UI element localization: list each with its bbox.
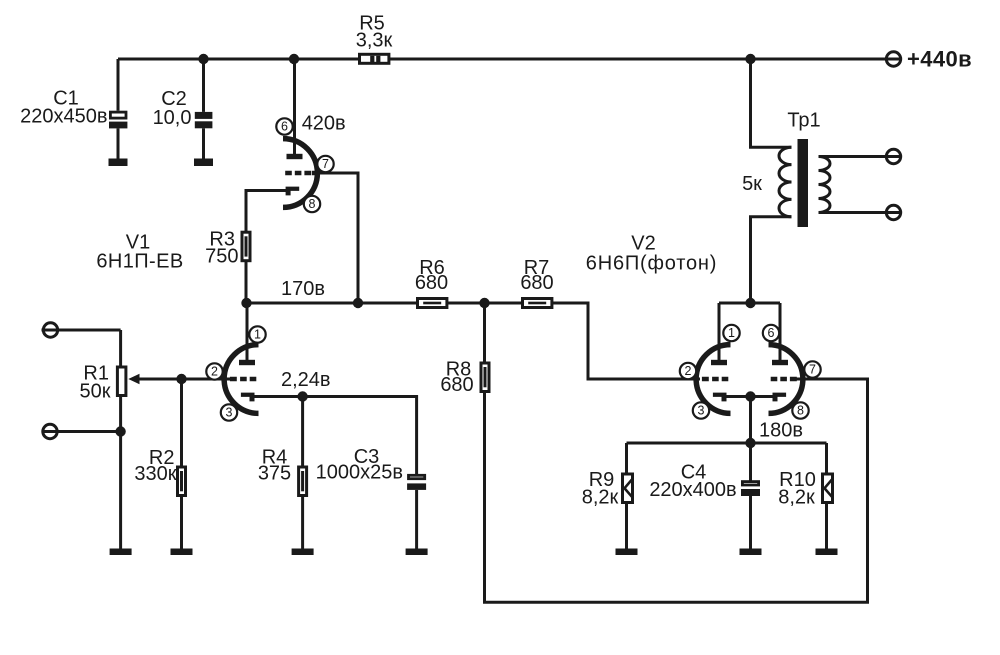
- wire feedback loop R8 to V2 grid pin7: [485, 379, 868, 602]
- svg-text:V2: V2: [631, 233, 655, 255]
- svg-text:1000х25в: 1000х25в: [316, 462, 403, 484]
- wire R10 top lead: [825, 443, 828, 474]
- svg-text:2: 2: [211, 365, 218, 379]
- svg-text:680: 680: [415, 272, 448, 294]
- wire R3 to node: [245, 261, 248, 303]
- pin 7: [317, 156, 333, 172]
- wire C2 bottom lead: [202, 128, 205, 158]
- wire R8 top lead: [483, 303, 486, 362]
- terminal input bottom: [42, 424, 121, 438]
- svg-text:3: 3: [226, 406, 233, 420]
- triode V1 upper (6Н1П-ЕВ section 2): [276, 118, 333, 212]
- svg-text:5к: 5к: [742, 173, 762, 195]
- wire R10 bottom lead: [825, 503, 828, 549]
- resistor R2: [178, 467, 186, 496]
- wire R2 bottom lead: [180, 496, 183, 549]
- node R8 tap: [479, 298, 489, 308]
- resistor R3: [242, 232, 250, 261]
- wire V1 grid line: [139, 378, 231, 381]
- wire V2 anode tee: [719, 303, 780, 361]
- wire secondary bottom lead: [819, 211, 901, 214]
- pin 8: [304, 196, 320, 212]
- svg-text:6Н1П-ЕВ: 6Н1П-ЕВ: [96, 251, 183, 273]
- pin 6: [276, 118, 292, 134]
- cathode: [713, 393, 727, 402]
- envelope arc: [769, 345, 803, 414]
- capacitor C2: [195, 112, 213, 128]
- capacitor C3: [407, 475, 426, 490]
- potentiometer R1: [117, 367, 139, 396]
- wire C1 bottom lead: [117, 128, 120, 158]
- svg-text:6: 6: [768, 326, 775, 340]
- wire R4 top lead: [301, 397, 304, 468]
- node R3 bottom: [241, 298, 251, 308]
- resistor R4: [299, 467, 307, 496]
- terminal +440в: [886, 52, 900, 66]
- wire V2 cathode down to C4: [749, 397, 752, 482]
- node V1 anode tap: [289, 54, 299, 64]
- svg-text:170в: 170в: [281, 278, 325, 300]
- pin 8: [792, 402, 808, 418]
- wire input top to R1: [119, 330, 122, 367]
- ground C3: [406, 549, 428, 556]
- node C2 tap: [198, 54, 208, 64]
- resistor R6: [418, 299, 447, 308]
- svg-text:220х400в: 220х400в: [649, 479, 736, 501]
- svg-text:750: 750: [205, 246, 238, 268]
- wire C4 bottom lead: [749, 496, 752, 549]
- anode plate: [239, 360, 255, 365]
- svg-text:Тр1: Тр1: [787, 110, 820, 132]
- node transformer tap: [745, 54, 755, 64]
- ground C4: [740, 549, 762, 556]
- wire C2 top lead: [202, 59, 205, 112]
- svg-text:10,0: 10,0: [153, 107, 192, 129]
- cathode: [773, 393, 787, 402]
- anode plate: [711, 360, 727, 365]
- svg-text:680: 680: [440, 374, 473, 396]
- node R4 tap: [297, 391, 307, 401]
- envelope arc: [283, 139, 317, 208]
- svg-text:420в: 420в: [302, 113, 346, 135]
- svg-text:50к: 50к: [80, 381, 111, 403]
- pin 1: [723, 325, 739, 341]
- anode plate: [287, 154, 303, 159]
- pin 3: [221, 404, 237, 420]
- wire V1 grid to node: [316, 173, 358, 303]
- svg-text:8,2к: 8,2к: [778, 487, 815, 509]
- wire V1 lower anode lead: [246, 303, 249, 361]
- pin 2: [680, 363, 696, 379]
- resistor R10: [823, 474, 833, 503]
- svg-text:6Н6П(фотон): 6Н6П(фотон): [586, 253, 717, 275]
- node V2 anode junction: [745, 298, 755, 308]
- svg-text:2,24в: 2,24в: [281, 369, 331, 391]
- node V2 cathode junction: [745, 391, 755, 401]
- grid dashes: [285, 171, 311, 176]
- triode V1 lower (6Н1П-ЕВ section 1): [206, 326, 265, 420]
- ground R9: [616, 549, 638, 556]
- wire V1 cathode to R3: [246, 191, 288, 233]
- svg-text:+440в: +440в: [907, 47, 972, 72]
- ground R2: [171, 549, 193, 556]
- pin 1: [249, 326, 265, 342]
- svg-text:375: 375: [258, 463, 291, 485]
- wire cathode resistor bus: [627, 442, 827, 445]
- svg-text:1: 1: [254, 328, 261, 342]
- resistor R5: [360, 54, 389, 63]
- ground R4: [292, 549, 314, 556]
- ground R1: [110, 549, 132, 556]
- cathode: [286, 187, 300, 196]
- wire 170в node line: [247, 303, 701, 379]
- terminal input top: [42, 323, 121, 337]
- triode V2 right (pins 6,7,8): [763, 325, 821, 419]
- capacitor C4: [741, 482, 760, 496]
- resistor R9: [623, 474, 633, 503]
- node grid drop: [353, 298, 363, 308]
- terminal output top: [886, 149, 900, 163]
- transformer Tp1 primary winding: [779, 147, 792, 217]
- wire transformer primary bottom lead: [751, 217, 792, 303]
- capacitor C1: [109, 112, 127, 128]
- ground C2: [194, 159, 213, 167]
- svg-text:220х450в: 220х450в: [20, 106, 107, 128]
- transformer Tp1 core: [798, 139, 809, 227]
- wire R2 top lead: [180, 379, 183, 467]
- wire V2 cathode join: [726, 395, 773, 398]
- pin 2: [206, 363, 222, 379]
- wire C3 bottom lead: [415, 490, 418, 549]
- svg-text:6: 6: [281, 120, 288, 134]
- svg-text:7: 7: [809, 363, 816, 377]
- pin 7: [804, 361, 820, 377]
- grid dashes: [230, 377, 256, 382]
- grid stub: [312, 171, 318, 176]
- svg-text:1: 1: [728, 326, 735, 340]
- svg-text:680: 680: [520, 272, 553, 294]
- wire V1 anode lead: [293, 59, 296, 155]
- wire secondary top lead: [819, 155, 901, 158]
- svg-text:330к: 330к: [134, 463, 176, 485]
- wire R1 bottom to ground: [119, 396, 122, 549]
- wire R4 bottom lead: [301, 496, 304, 549]
- wire C1 top lead: [117, 59, 120, 111]
- svg-text:8,2к: 8,2к: [582, 487, 619, 509]
- wire top supply rail: [118, 58, 901, 61]
- wire R9 top lead: [625, 443, 628, 474]
- grid dashes: [702, 377, 728, 382]
- node R2 tap: [176, 374, 186, 384]
- svg-text:2: 2: [685, 364, 692, 378]
- wire R9 bottom lead: [625, 503, 628, 549]
- transformer Tp1 secondary winding: [819, 157, 831, 213]
- svg-text:3,3к: 3,3к: [356, 30, 393, 52]
- node input bottom junction: [115, 426, 125, 436]
- envelope arc: [224, 345, 258, 414]
- pin 6: [763, 325, 779, 341]
- wire V1 cathode node 2,24в: [254, 397, 417, 476]
- svg-text:8: 8: [797, 404, 804, 418]
- grid dashes: [771, 377, 797, 382]
- svg-text:7: 7: [322, 157, 329, 171]
- envelope arc: [696, 345, 730, 414]
- resistor R8: [481, 363, 489, 392]
- svg-text:180в: 180в: [759, 420, 803, 442]
- pin 3: [693, 402, 709, 418]
- anode plate: [772, 360, 788, 365]
- terminal output bottom: [886, 205, 900, 219]
- node C4 bus junction: [745, 438, 755, 448]
- wire transformer primary top lead: [751, 59, 792, 147]
- ground R10: [816, 549, 838, 556]
- svg-text:3: 3: [698, 404, 705, 418]
- cathode: [241, 393, 255, 402]
- triode V2 left (pins 1,2,3): [680, 325, 740, 419]
- resistor R7: [523, 299, 552, 308]
- ground C1: [109, 159, 128, 167]
- svg-text:8: 8: [309, 197, 316, 211]
